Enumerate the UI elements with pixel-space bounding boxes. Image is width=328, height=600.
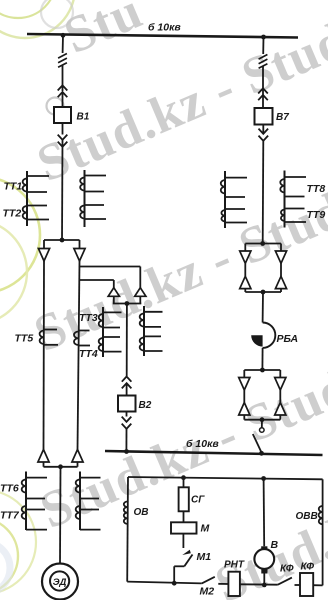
wire exciter to frame bottom xyxy=(263,574,265,585)
wire chevrons to B2 xyxy=(126,383,128,395)
label TT6 xyxy=(0,483,19,495)
wire branch upper horizontal xyxy=(79,267,140,289)
valve triangle up bottom-left xyxy=(38,450,49,463)
withdrawable contact chevrons below B7 xyxy=(259,129,269,141)
svg-text:ЭД: ЭД xyxy=(53,577,67,588)
node bridge1 bottom xyxy=(261,290,266,295)
label V (exciter) xyxy=(271,539,279,551)
wire left feeder to breaker xyxy=(62,65,64,92)
wire B7 down to bridge 1 xyxy=(262,141,265,244)
coil OVV on right frame xyxy=(319,506,323,524)
label TT8 xyxy=(307,183,326,195)
label TT2 xyxy=(3,208,22,220)
label M2 xyxy=(200,586,215,598)
label TT3 xyxy=(79,312,98,324)
wire right feeder drop xyxy=(262,37,264,54)
node bridge1 top xyxy=(260,241,265,246)
current transformer winding on right vertical xyxy=(74,331,90,346)
wire to right valve xyxy=(79,240,81,249)
wire right feeder to chevrons xyxy=(262,66,264,95)
frame bottom segment to KF box xyxy=(295,584,301,586)
node split below B1 xyxy=(60,238,65,243)
wire chevrons to B1 xyxy=(62,92,64,107)
node bridge2 bottom xyxy=(260,417,265,422)
wire to left valve xyxy=(43,240,45,249)
wire chevrons to B7 xyxy=(262,95,264,108)
wire SG to M coil xyxy=(183,511,185,522)
wire B1 down to split node xyxy=(61,140,64,240)
wire to motor xyxy=(59,467,62,564)
breaker V1 xyxy=(54,107,71,123)
wire M1 jog horizontal xyxy=(174,565,184,567)
motor ED xyxy=(42,564,78,600)
wire B2 to bottom bus xyxy=(125,429,127,452)
wire reactor to bridge 2 xyxy=(261,348,263,370)
breaker V2 xyxy=(118,396,136,412)
label KF (contact) xyxy=(280,564,294,575)
node exciter on frame bottom xyxy=(262,583,267,588)
svg-text:СГ: СГ xyxy=(191,495,205,506)
svg-text:М: М xyxy=(201,523,210,535)
wire stubs below valve pair xyxy=(114,296,141,303)
svg-text:М2: М2 xyxy=(200,586,215,598)
disconnect hinge circle xyxy=(260,428,265,433)
label V1 xyxy=(77,112,90,123)
svg-text:ТТ3: ТТ3 xyxy=(79,312,98,324)
wire stubs below bottom valves xyxy=(44,462,78,467)
wire joining bar below bottom valves xyxy=(44,466,78,468)
svg-text:В: В xyxy=(271,539,279,551)
label TT4 xyxy=(79,348,98,360)
control circuit frame top xyxy=(128,477,323,479)
svg-text:ОВ: ОВ xyxy=(134,507,149,518)
contact M1 fixed tip xyxy=(182,550,191,555)
valve triangle up bottom-right xyxy=(72,450,83,463)
svg-text:ТТ7: ТТ7 xyxy=(0,510,20,522)
label TT5 xyxy=(15,333,34,345)
label OVV xyxy=(296,511,318,522)
valve triangle left (down) xyxy=(38,249,49,262)
wire bridge2 to disconnect xyxy=(261,420,263,428)
node junction right feeder on top bus xyxy=(261,35,266,40)
label TT1 xyxy=(4,181,23,193)
node disconnect on bottom bus xyxy=(259,451,264,456)
svg-text:М1: М1 xyxy=(197,551,212,563)
flexible-link ticks left feeder xyxy=(58,54,67,68)
wire B1 to lower chevrons xyxy=(62,123,64,135)
svg-text:РБА: РБА xyxy=(277,333,299,345)
svg-text:б 10кв: б 10кв xyxy=(186,438,219,450)
current transformer secondary group right of TT6/TT7 xyxy=(76,472,101,531)
label M xyxy=(201,523,210,535)
thyristor bridge 1 xyxy=(240,244,287,293)
node junction left feeder on top bus xyxy=(61,33,66,38)
resistor box SG xyxy=(179,487,189,511)
node below bottom valves xyxy=(58,464,63,469)
svg-text:В2: В2 xyxy=(139,400,152,411)
label TT9 xyxy=(307,209,326,221)
breaker V7 xyxy=(255,108,273,125)
current transformer TT3/TT4 left group xyxy=(99,307,122,357)
current transformer TT1/TT2 left group xyxy=(23,171,49,226)
valve triangle right (down) xyxy=(74,249,85,262)
disconnect blade xyxy=(253,434,262,453)
svg-text:ТТ1: ТТ1 xyxy=(4,181,23,193)
wire joining bar below valve pair xyxy=(113,303,142,305)
control circuit frame left xyxy=(126,477,129,582)
node M branch on frame bottom xyxy=(172,581,177,586)
valve triangle up right of pair xyxy=(135,288,146,297)
svg-text:ТТ8: ТТ8 xyxy=(307,183,326,195)
wire long right vertical xyxy=(78,261,80,450)
wire split horizontal xyxy=(44,239,80,241)
bus 6 10kV (top) xyxy=(27,34,298,38)
withdrawable contact chevrons above B1 xyxy=(58,85,68,97)
current transformer TT5 on left vertical xyxy=(40,330,58,345)
label top bus 6 10kv xyxy=(148,22,181,34)
withdrawable contact chevrons below B1 xyxy=(58,135,68,147)
node SG branch on frame top xyxy=(181,475,186,480)
bus 6 10kV (bottom) xyxy=(105,451,323,455)
exciter V xyxy=(254,549,274,569)
wire down to B2 column xyxy=(126,304,128,377)
svg-text:РНТ: РНТ xyxy=(224,560,245,571)
current transformer TT6/TT7 left group xyxy=(22,472,47,531)
contact M1 blade xyxy=(184,555,192,567)
label RBA xyxy=(277,333,299,345)
svg-text:ТТ4: ТТ4 xyxy=(79,348,98,360)
current transformer secondary group right of TT3/TT4 xyxy=(140,306,163,356)
thyristor bridge 2 xyxy=(239,370,286,420)
svg-text:ТТ2: ТТ2 xyxy=(3,208,22,220)
node exciter branch on frame top xyxy=(261,476,266,481)
svg-text:ОВВ: ОВВ xyxy=(296,511,318,522)
wire frame to exciter xyxy=(263,479,266,547)
relay coil M xyxy=(171,522,197,533)
svg-text:ТТ5: ТТ5 xyxy=(15,333,34,345)
label bottom bus 6 10kv xyxy=(186,438,219,450)
label V7 xyxy=(276,112,289,123)
wire left feeder drop xyxy=(62,35,64,53)
label KF (box) xyxy=(301,562,315,573)
flexible-link ticks right feeder xyxy=(259,55,268,69)
frame bottom segment RNT to KF blade xyxy=(240,583,278,585)
label SG xyxy=(191,495,205,506)
withdrawable contact chevrons above B7 xyxy=(258,88,268,100)
svg-text:КФ: КФ xyxy=(280,564,294,575)
svg-text:В1: В1 xyxy=(77,112,90,123)
frame bottom segment KF box to corner xyxy=(313,584,322,586)
valve triangle up left of pair xyxy=(108,288,119,297)
withdrawable contact chevrons below B2 xyxy=(122,417,132,429)
relay box RNT xyxy=(228,572,240,596)
wire frame to SG xyxy=(183,478,185,488)
exciter brush top xyxy=(261,546,267,550)
withdrawable contact chevrons above B2 xyxy=(122,377,132,389)
label OV xyxy=(134,507,149,518)
wire B7 to lower chevrons xyxy=(262,125,264,135)
svg-text:В7: В7 xyxy=(276,112,289,123)
label RNT xyxy=(224,560,245,571)
current transformer TT8/TT9 right group xyxy=(280,171,306,228)
svg-text:б 10кв: б 10кв xyxy=(148,22,181,34)
current transformer secondary group right of TT1/TT2 xyxy=(80,170,106,227)
label TT7 xyxy=(0,510,20,522)
coil OV on left frame xyxy=(124,502,128,524)
wire M1 jog vertical xyxy=(173,566,175,583)
wire bridge1 to reactor xyxy=(262,292,264,323)
svg-text:КФ: КФ xyxy=(301,562,315,573)
relay box KF xyxy=(300,573,313,596)
current transformer group left of TT8/TT9 line xyxy=(221,171,247,228)
node bridge2 top xyxy=(260,368,265,373)
node B2 on bottom bus xyxy=(124,449,129,454)
svg-text:ТТ9: ТТ9 xyxy=(307,209,326,221)
wire branch lower horizontal xyxy=(79,280,114,288)
wire B2 to lower chevrons xyxy=(126,412,128,417)
frame bottom segment to RNT xyxy=(218,583,228,585)
label M1 xyxy=(197,551,212,563)
wire long left vertical xyxy=(43,261,46,450)
frame bottom segment left xyxy=(127,582,202,584)
reactor RBA xyxy=(251,323,275,348)
contact KF blade xyxy=(278,578,292,585)
node below valve pair xyxy=(125,301,130,306)
svg-text:ТТ6: ТТ6 xyxy=(0,483,19,495)
wire M coil to contact M1 xyxy=(182,534,184,548)
contact M2 blade xyxy=(202,577,215,584)
control circuit frame right xyxy=(322,479,324,585)
label V2 xyxy=(139,400,152,411)
exciter brush bottom xyxy=(261,569,267,574)
